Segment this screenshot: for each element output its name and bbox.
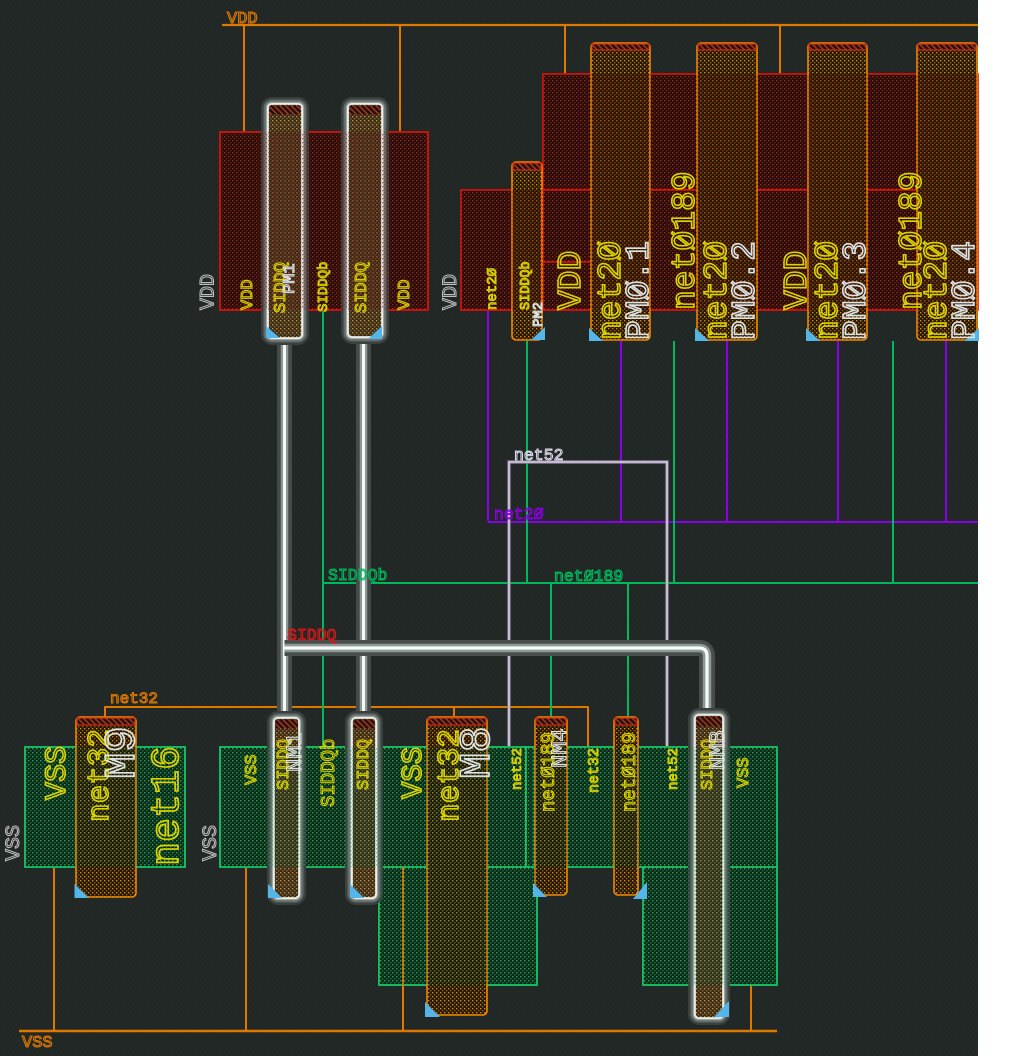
svg-text:VDD: VDD — [396, 279, 415, 310]
svg-text:net52: net52 — [510, 748, 526, 790]
svg-text:net16: net16 — [146, 746, 191, 866]
svg-text:SIDDQ: SIDDQ — [287, 626, 337, 645]
svg-text:PM2: PM2 — [531, 302, 547, 327]
svg-text:VSS: VSS — [735, 757, 754, 788]
svg-text:VDD: VDD — [198, 274, 221, 310]
svg-text:netØ189: netØ189 — [554, 567, 623, 586]
svg-text:SIDDQb: SIDDQb — [316, 262, 332, 312]
svg-text:VDD: VDD — [553, 251, 590, 310]
svg-text:PMØ.3: PMØ.3 — [838, 241, 875, 340]
svg-text:SIDDQ: SIDDQ — [353, 262, 372, 313]
svg-text:NM1: NM1 — [283, 732, 308, 772]
svg-text:NM4: NM4 — [548, 728, 573, 768]
svg-text:PMØ.4: PMØ.4 — [947, 241, 984, 340]
svg-text:net52: net52 — [666, 748, 682, 790]
svg-text:net32: net32 — [110, 690, 158, 708]
svg-text:VSS: VSS — [22, 1034, 53, 1053]
svg-text:PMØ.2: PMØ.2 — [727, 241, 764, 340]
svg-text:VSS: VSS — [243, 754, 262, 785]
svg-text:net2Ø: net2Ø — [494, 505, 544, 524]
svg-text:VSS: VSS — [3, 825, 26, 861]
svg-text:netØ189: netØ189 — [619, 732, 641, 812]
svg-text:VDD: VDD — [227, 10, 258, 29]
svg-text:VSS: VSS — [397, 747, 430, 799]
svg-text:SIDDQb: SIDDQb — [318, 739, 340, 807]
svg-text:PMØ.1: PMØ.1 — [621, 241, 658, 340]
svg-text:net52: net52 — [514, 446, 564, 465]
svg-text:net32: net32 — [586, 748, 603, 793]
svg-text:VSS: VSS — [200, 825, 223, 861]
svg-text:net2Ø: net2Ø — [485, 268, 501, 310]
svg-text:VSS: VSS — [41, 746, 75, 800]
svg-text:VDD: VDD — [239, 279, 258, 310]
svg-text:SIDDQb: SIDDQb — [328, 566, 387, 585]
svg-text:VDD: VDD — [440, 274, 463, 310]
svg-text:M8: M8 — [453, 726, 503, 779]
svg-text:NMB: NMB — [706, 730, 731, 770]
svg-text:PM1: PM1 — [281, 263, 300, 294]
svg-text:M9: M9 — [98, 726, 148, 779]
svg-text:SIDDQ: SIDDQ — [355, 739, 374, 790]
